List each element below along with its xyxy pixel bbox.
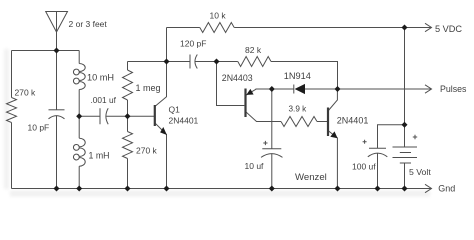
- svg-text:Pulses: Pulses: [440, 84, 467, 94]
- svg-text:10 k: 10 k: [210, 10, 227, 20]
- svg-text:.001 uf: .001 uf: [91, 95, 117, 105]
- svg-text:82 k: 82 k: [245, 45, 262, 55]
- svg-text:270 k: 270 k: [136, 145, 158, 155]
- svg-text:270 k: 270 k: [15, 88, 37, 98]
- svg-text:5 Volt: 5 Volt: [409, 167, 431, 177]
- svg-text:2N4401: 2N4401: [337, 116, 369, 126]
- svg-text:10 uf: 10 uf: [245, 161, 265, 171]
- svg-text:2 or 3 feet: 2 or 3 feet: [69, 19, 108, 29]
- svg-text:2N4401: 2N4401: [169, 116, 199, 126]
- svg-text:1N914: 1N914: [284, 71, 311, 81]
- svg-text:Q1: Q1: [169, 105, 181, 115]
- svg-text:10 mH: 10 mH: [87, 72, 114, 82]
- svg-text:5 VDC: 5 VDC: [435, 24, 462, 34]
- svg-text:Gnd: Gnd: [438, 183, 455, 193]
- svg-text:Wenzel: Wenzel: [295, 172, 327, 183]
- svg-text:120 pF: 120 pF: [180, 39, 206, 49]
- svg-text:1 meg: 1 meg: [136, 83, 161, 93]
- svg-text:3.9 k: 3.9 k: [289, 105, 308, 114]
- svg-text:2N4403: 2N4403: [222, 73, 253, 83]
- svg-text:100 uf: 100 uf: [352, 161, 376, 171]
- svg-text:10 pF: 10 pF: [28, 122, 50, 132]
- svg-text:1 mH: 1 mH: [89, 150, 110, 160]
